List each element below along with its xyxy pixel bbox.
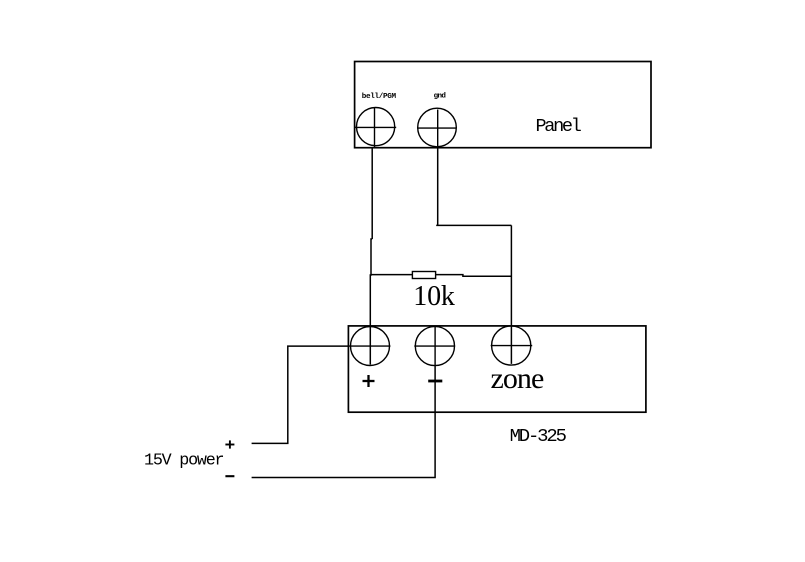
wire 15V minus [252, 366, 436, 478]
label + (terminal) [363, 375, 375, 387]
panel box U1 [355, 62, 651, 148]
MD-325 box U2 [348, 326, 646, 412]
svg-text:gnd: gnd [434, 93, 447, 101]
terminal zone (MD-325) [491, 326, 533, 365]
wire gnd horizontal [436, 224, 511, 226]
wire 15V plus [252, 346, 349, 443]
svg-text:bell/PGM: bell/PGM [362, 93, 397, 101]
label + (power) [225, 440, 234, 448]
terminal - (MD-325) [414, 326, 455, 365]
wire bell/PGM down (lower, to + terminal) [370, 239, 372, 365]
svg-text:15V power: 15V power [144, 452, 224, 471]
svg-text:MD-325: MD-325 [510, 425, 567, 447]
wire gnd down [437, 148, 439, 226]
terminal gnd [417, 108, 456, 147]
wire bell/PGM down (upper) [371, 148, 373, 239]
resistor R1 10k [412, 272, 435, 279]
wire resistor right [436, 275, 512, 277]
svg-text:Panel: Panel [536, 116, 582, 137]
label - (power) [225, 475, 234, 477]
terminal + (MD-325) [348, 327, 390, 366]
wire resistor left [371, 274, 412, 276]
wire gnd to zone terminal [510, 225, 512, 364]
svg-text:zone: zone [491, 362, 544, 395]
terminal bell/PGM [355, 108, 397, 148]
label - (terminal) [428, 380, 442, 383]
svg-text:10k: 10k [413, 281, 455, 312]
